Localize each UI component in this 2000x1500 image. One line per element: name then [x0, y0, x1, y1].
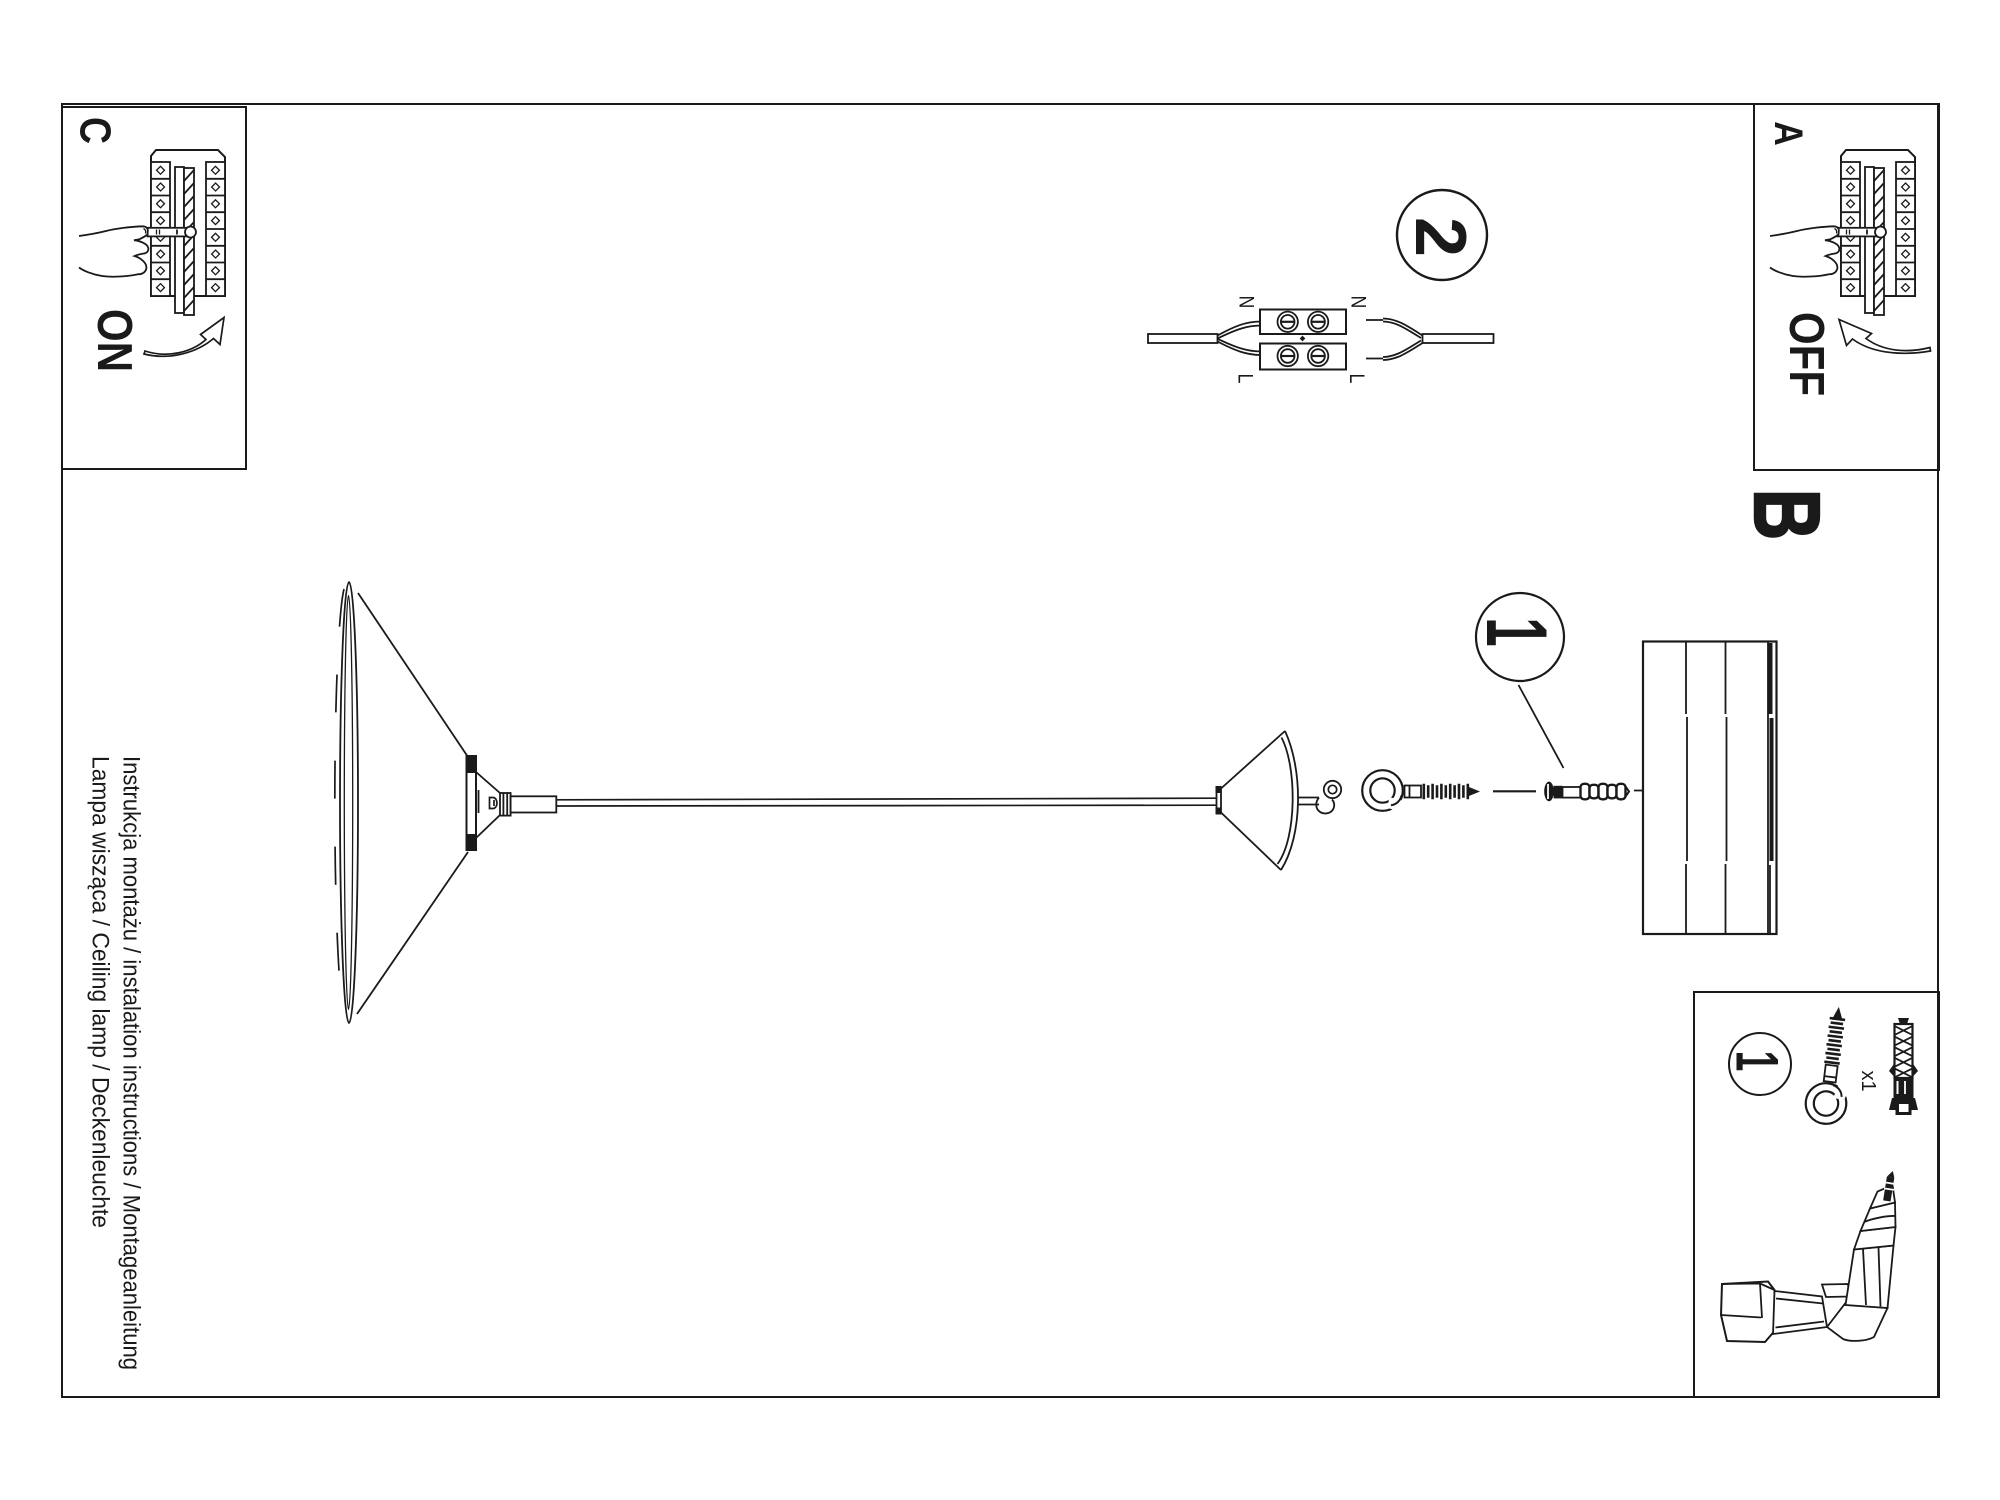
shade rim inner ellipse	[344, 596, 352, 1010]
caption line 1	[118, 756, 145, 1370]
svg-text:L: L	[1233, 374, 1257, 384]
label B	[1735, 489, 1840, 540]
box 1 frame (bottom right)	[1694, 992, 1939, 1397]
svg-text:Lampa wisząca / Ceiling lamp /: Lampa wisząca / Ceiling lamp / Deckenleu…	[87, 756, 114, 1228]
canopy apex plate	[1216, 786, 1222, 815]
left cable	[1148, 334, 1218, 343]
label N left	[1234, 296, 1258, 309]
pressing hand (box A)	[1770, 226, 1839, 276]
parts badge 1 digit	[1723, 1051, 1790, 1072]
svg-text:B: B	[1735, 489, 1840, 540]
svg-text:1: 1	[1723, 1051, 1790, 1072]
label N right	[1346, 296, 1370, 309]
svg-text:N: N	[1346, 296, 1370, 309]
label L left	[1233, 374, 1257, 384]
label A	[1766, 121, 1811, 146]
ceiling planks	[1643, 642, 1777, 935]
shade rim ellipse	[340, 582, 358, 1023]
step badge 1 circle	[1476, 593, 1564, 681]
hook item in parts box	[1803, 1004, 1859, 1126]
parts badge 1 circle	[1729, 1033, 1791, 1095]
svg-text:L: L	[1345, 374, 1369, 384]
label C	[71, 117, 121, 144]
leader line from badge 1	[1519, 685, 1564, 768]
arrow ON (curved, up-right)	[144, 318, 224, 357]
wall plug item in parts box	[1889, 1018, 1918, 1115]
arrow OFF (curved, up-left)	[1839, 320, 1931, 354]
socket detail mark	[490, 798, 498, 809]
svg-text:1: 1	[1468, 617, 1564, 647]
canopy cord stub	[1298, 798, 1319, 805]
svg-text:C: C	[71, 117, 121, 144]
right cable	[1423, 334, 1494, 343]
label x1	[1857, 1070, 1879, 1091]
step badge 2 digit	[1400, 217, 1480, 257]
right wire lower	[1383, 341, 1423, 361]
right wire upper	[1383, 319, 1423, 339]
step badge 2 circle	[1397, 190, 1487, 280]
box C frame	[62, 107, 246, 469]
text ON	[87, 309, 142, 372]
shade cone top line	[358, 593, 468, 757]
shade rim outer dashes	[335, 589, 344, 1016]
expansion plug with screw	[1544, 782, 1629, 802]
terminal block lower	[1260, 344, 1346, 370]
box A frame	[1754, 104, 1939, 470]
pendant cord	[556, 798, 1216, 806]
svg-text:x1: x1	[1857, 1070, 1879, 1091]
terminal block upper	[1260, 310, 1346, 335]
shade cone bottom line	[357, 852, 468, 1014]
left wire lower	[1218, 339, 1262, 355]
svg-text:A: A	[1766, 121, 1811, 146]
label L right	[1345, 374, 1369, 384]
svg-text:ON: ON	[87, 309, 142, 372]
drill in parts box	[1721, 1170, 1897, 1342]
cord grip cylinder	[500, 793, 511, 816]
left wire upper	[1218, 322, 1262, 339]
strain relief tube	[511, 796, 557, 812]
alignment dash	[1493, 790, 1536, 792]
caption line 2	[87, 756, 114, 1228]
shade neck plate	[467, 756, 479, 850]
svg-text:2: 2	[1400, 217, 1480, 257]
circuit breaker panel (box A)	[1838, 150, 1916, 315]
svg-text:N: N	[1234, 296, 1258, 309]
svg-text:OFF: OFF	[1779, 312, 1834, 396]
hole mark in plank	[1699, 785, 1703, 797]
canopy cone bottom line	[1221, 813, 1281, 871]
terminal screws	[1278, 312, 1329, 367]
text OFF	[1779, 312, 1834, 396]
pressing hand (box C)	[79, 226, 148, 276]
canopy rim arc	[1278, 731, 1299, 870]
canopy cone top line	[1221, 731, 1285, 789]
hanging eyelet	[1316, 781, 1341, 814]
svg-text:Instrukcja montażu / instalati: Instrukcja montażu / instalation instruc…	[118, 756, 145, 1370]
circuit breaker panel (box C)	[148, 150, 226, 315]
plug alignment line	[1634, 790, 1703, 792]
mark between blocks	[1300, 336, 1306, 342]
socket cone	[476, 772, 500, 838]
right bare wire tips	[1366, 320, 1383, 359]
step badge 1 digit	[1468, 617, 1564, 647]
ceiling hook with eye	[1362, 770, 1480, 812]
